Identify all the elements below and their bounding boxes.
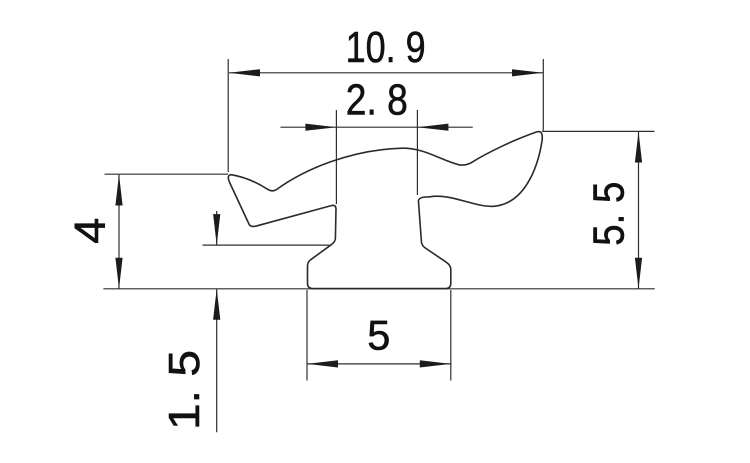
dim 5.5 line [638, 132, 640, 289]
dim 5.5 top extension [542, 130, 655, 132]
arrow 2.8 left (points right) [305, 124, 336, 131]
dim 2.8 line [280, 126, 472, 128]
profile outline of T-slot seal cross-section [228, 132, 542, 289]
arrow 5 right (points right) [420, 360, 451, 367]
dim 1.5 top extension [203, 244, 330, 246]
dim 1.5 line lower tail [216, 289, 218, 433]
dim 4 line [118, 175, 120, 289]
dim 1.5 line upper tail [216, 211, 218, 245]
arrow 10.9 right [512, 69, 543, 76]
baseline [103, 288, 654, 290]
arrow 5.5 bottom (points down) [635, 258, 642, 289]
arrow 1.5 bottom (points up) [213, 289, 220, 320]
svg-text:4: 4 [67, 218, 115, 244]
svg-text:5. 5: 5. 5 [586, 182, 634, 246]
svg-text:10. 9: 10. 9 [346, 24, 426, 72]
arrow 2.8 right (points left) [417, 124, 448, 131]
dim 5 left extension [306, 290, 308, 381]
dimension texts [67, 24, 634, 430]
dim 10.9 line [229, 72, 543, 74]
dim 2.8 left extension [335, 110, 337, 204]
dim 4 top extension [105, 173, 229, 175]
arrow 4 top (points up) [115, 175, 122, 206]
svg-text:1. 5: 1. 5 [161, 350, 209, 430]
arrow 4 bottom (points down) [115, 258, 122, 289]
arrow 5.5 top (points up) [635, 132, 642, 163]
dim 10.9 right extension [542, 59, 544, 131]
dim 10.9 left extension [227, 59, 229, 172]
arrow 1.5 top (points down) [213, 214, 220, 245]
dim 5 right extension [450, 290, 452, 381]
svg-text:5: 5 [367, 311, 390, 358]
svg-text:2. 8: 2. 8 [346, 77, 408, 125]
arrow 5 left (points left) [307, 360, 338, 367]
dim 2.8 right extension [416, 110, 418, 195]
arrow 10.9 left [229, 69, 260, 76]
dim 5 line [307, 363, 451, 365]
